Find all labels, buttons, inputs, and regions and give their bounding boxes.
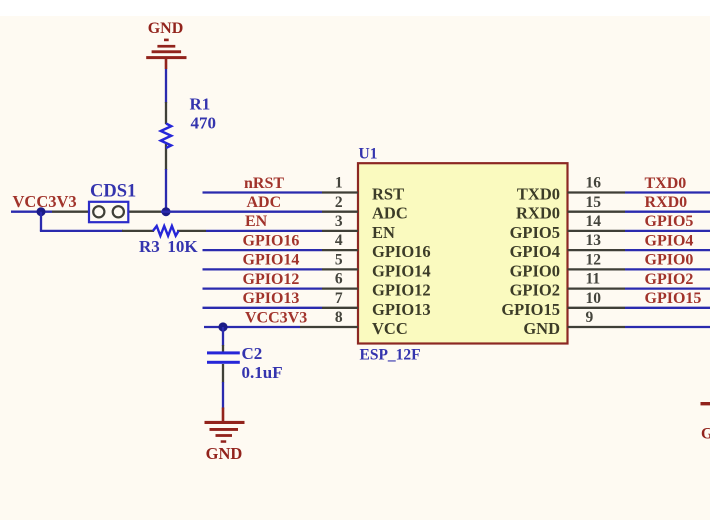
svg-text:RXD0: RXD0: [645, 194, 688, 211]
svg-text:GPIO2: GPIO2: [510, 281, 560, 300]
svg-text:VCC3V3: VCC3V3: [245, 309, 307, 326]
ground GND top: [146, 20, 186, 69]
junction VCC branch: [37, 207, 46, 216]
pin 14 GPIO5: [510, 213, 625, 242]
wire nRST row: [203, 191, 323, 193]
svg-text:GPIO2: GPIO2: [645, 271, 694, 288]
svg-text:4: 4: [335, 232, 343, 249]
svg-text:5: 5: [335, 252, 343, 269]
junction R1 ADC row: [162, 207, 171, 216]
svg-text:GPIO0: GPIO0: [510, 261, 560, 280]
svg-text:ADC: ADC: [372, 204, 408, 223]
svg-text:GPIO4: GPIO4: [645, 232, 694, 249]
svg-text:GPIO14: GPIO14: [372, 261, 431, 280]
wire VCC3V3 to CDS1: [11, 211, 52, 213]
svg-text:GPIO13: GPIO13: [243, 290, 300, 307]
svg-text:GND: GND: [206, 444, 243, 463]
svg-text:16: 16: [586, 175, 602, 192]
svg-text:3: 3: [335, 213, 343, 230]
svg-text:R1: R1: [190, 95, 211, 114]
wire R1 to junction: [165, 169, 167, 212]
capacitor C2 0.1uF: [207, 344, 283, 383]
svg-text:11: 11: [586, 271, 601, 288]
wire GND to R1: [165, 69, 167, 103]
svg-text:CDS1: CDS1: [90, 182, 136, 202]
pin 13 GPIO4: [510, 232, 625, 261]
svg-text:C2: C2: [242, 344, 263, 363]
svg-text:U1: U1: [359, 146, 378, 163]
wire VCC3V3 row: [204, 326, 300, 328]
pin 11 GPIO2: [510, 271, 625, 300]
svg-text:EN: EN: [245, 213, 268, 230]
svg-text:TXD0: TXD0: [645, 175, 687, 192]
wire C2 to GND: [222, 382, 224, 409]
pin 9 GND: [523, 309, 625, 338]
svg-text:GPIO13: GPIO13: [372, 300, 431, 319]
wire GPIO16 row: [203, 249, 323, 251]
pin 16 TXD0: [517, 175, 625, 204]
pin 6 GPIO12: [322, 271, 431, 300]
wire pin 10 row: [625, 307, 710, 309]
svg-text:GPIO16: GPIO16: [372, 242, 431, 261]
svg-text:9: 9: [586, 309, 594, 326]
svg-text:12: 12: [586, 252, 602, 269]
pin 8 VCC: [300, 309, 408, 338]
svg-text:15: 15: [586, 194, 602, 211]
svg-text:GPIO0: GPIO0: [645, 252, 694, 269]
wire pin 15 row: [625, 211, 710, 213]
wire pin 14 row: [625, 230, 710, 232]
svg-text:470: 470: [191, 114, 217, 133]
svg-text:R3 10K: R3 10K: [139, 237, 198, 256]
svg-text:TXD0: TXD0: [517, 185, 560, 204]
pin 12 GPIO0: [510, 252, 625, 281]
junction C2 tap: [218, 322, 227, 331]
pin 1 RST: [322, 175, 404, 204]
svg-text:VCC3V3: VCC3V3: [13, 192, 77, 211]
svg-text:RXD0: RXD0: [516, 204, 560, 223]
svg-text:GPIO15: GPIO15: [501, 300, 560, 319]
svg-text:GPIO5: GPIO5: [510, 223, 560, 242]
wire GPIO13 row: [203, 307, 323, 309]
pin 7 GPIO13: [322, 290, 431, 319]
svg-text:G: G: [701, 426, 710, 443]
svg-text:1: 1: [335, 175, 343, 192]
svg-text:GPIO15: GPIO15: [645, 290, 702, 307]
wire C2 top: [222, 327, 224, 346]
wire ADC row: [161, 211, 322, 213]
wire VCC branch vertical: [40, 212, 42, 231]
svg-text:GPIO14: GPIO14: [243, 252, 300, 269]
svg-text:6: 6: [335, 271, 343, 288]
svg-text:7: 7: [335, 290, 343, 307]
svg-text:RST: RST: [372, 185, 404, 204]
svg-text:EN: EN: [372, 223, 395, 242]
wire pin 11 row: [625, 287, 710, 289]
wire VCC branch to R3: [40, 230, 123, 232]
pin 2 ADC: [322, 194, 408, 223]
svg-text:GPIO16: GPIO16: [243, 232, 300, 249]
svg-text:ESP_12F: ESP_12F: [360, 347, 421, 364]
wire pin 16 row: [625, 191, 710, 193]
pin 4 GPIO16: [322, 232, 431, 261]
ground partial bottom right: [701, 402, 710, 443]
svg-text:10: 10: [586, 290, 602, 307]
pin 10 GPIO15: [501, 290, 625, 319]
pin 3 EN: [322, 213, 395, 242]
svg-text:GPIO12: GPIO12: [372, 281, 431, 300]
svg-text:8: 8: [335, 309, 343, 326]
svg-text:GPIO12: GPIO12: [243, 271, 300, 288]
svg-text:2: 2: [335, 194, 343, 211]
svg-text:nRST: nRST: [244, 175, 284, 192]
IC U1 body: [358, 163, 568, 343]
wire EN row: [206, 230, 322, 232]
svg-text:GPIO4: GPIO4: [510, 242, 560, 261]
wire GPIO14 row: [203, 268, 323, 270]
svg-text:0.1uF: 0.1uF: [242, 363, 283, 382]
svg-text:GND: GND: [523, 319, 560, 338]
wire pin 9 row: [625, 326, 710, 328]
wire GPIO12 row: [203, 287, 323, 289]
svg-text:14: 14: [586, 213, 602, 230]
svg-text:VCC: VCC: [372, 319, 408, 338]
photoresistor CDS1: [52, 182, 162, 223]
svg-text:13: 13: [586, 232, 602, 249]
pin 15 RXD0: [516, 194, 625, 223]
ground GND bottom: [205, 408, 245, 464]
resistor R3 10K: [122, 226, 206, 256]
svg-text:ADC: ADC: [247, 194, 282, 211]
svg-text:GPIO5: GPIO5: [645, 213, 694, 230]
wire pin 12 row: [625, 268, 710, 270]
wire pin 13 row: [625, 249, 710, 251]
svg-text:GND: GND: [148, 20, 184, 37]
resistor R1 470: [161, 95, 216, 171]
pin 5 GPIO14: [322, 252, 431, 281]
